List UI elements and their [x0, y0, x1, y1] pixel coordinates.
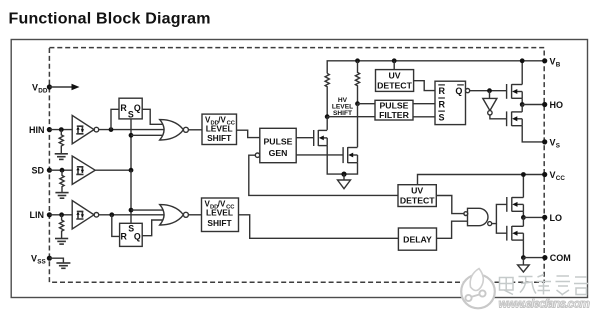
wire Q4 drain to LO	[522, 217, 524, 226]
svg-text:Q: Q	[134, 232, 141, 242]
latch U2 S R Q (low side)	[120, 223, 143, 246]
node SD net to NOR1	[129, 133, 134, 138]
wire VDD arrow	[49, 84, 79, 90]
pin VS	[542, 137, 560, 149]
node VCC/Q3 drain	[521, 172, 526, 177]
wire Q1 source to HO	[521, 98, 523, 104]
wire LO line	[523, 216, 544, 218]
schmitt buffer SD	[72, 156, 95, 184]
svg-text:LIN: LIN	[30, 210, 45, 220]
svg-text:PULSE: PULSE	[380, 100, 409, 110]
svg-text:LEVEL: LEVEL	[206, 124, 233, 134]
svg-text:Q: Q	[134, 103, 141, 113]
svg-text:S: S	[556, 142, 560, 149]
nand gate G4 low side	[464, 208, 492, 225]
svg-text:DETECT: DETECT	[377, 81, 412, 91]
node R2 to pulse filter	[355, 101, 360, 106]
svg-text:LO: LO	[550, 213, 563, 223]
svg-text:DETECT: DETECT	[400, 196, 435, 206]
wire SD net to NOR2 input	[131, 209, 166, 211]
transistor Q4 low side sink	[507, 226, 524, 241]
latch U3 RRS/Q (high side output latch)	[435, 81, 470, 124]
wire latch U1 S input from SD net	[130, 119, 132, 170]
wire level shift to pulse gen	[237, 130, 260, 137]
svg-text:COM: COM	[550, 253, 571, 263]
svg-text:UV: UV	[411, 186, 423, 196]
watermark chinese text	[500, 275, 589, 296]
wire SD net down to low side	[130, 170, 132, 223]
svg-text:SHIFT: SHIFT	[207, 218, 232, 228]
svg-text:UV: UV	[388, 71, 400, 81]
svg-text:SS: SS	[37, 259, 45, 266]
svg-text:V: V	[550, 170, 556, 180]
label HV LEVEL SHIFT	[332, 97, 353, 117]
node COM	[521, 255, 526, 260]
overbars latch U3	[438, 85, 464, 111]
label level shift low	[205, 200, 236, 229]
wire G4 output to LO drivers	[492, 204, 507, 233]
pin VB	[542, 56, 561, 68]
wire VSS to ground	[49, 258, 63, 263]
svg-text:Functional Block Diagram: Functional Block Diagram	[9, 11, 211, 28]
svg-text:SHIFT: SHIFT	[207, 133, 232, 143]
wire pulse gen out A to M1 gate	[296, 137, 314, 139]
svg-text:GEN: GEN	[269, 148, 288, 158]
wire Q4 source to COM	[522, 240, 524, 258]
pin HIN	[47, 127, 52, 132]
label delay	[403, 234, 432, 244]
watermark elecfans logo	[461, 269, 495, 309]
wire latch U2 Q output to NOR2	[142, 220, 166, 236]
wire G1 output	[188, 129, 202, 131]
label pin LIN	[30, 210, 45, 220]
svg-text:Q: Q	[455, 86, 462, 96]
node VB rail R2	[355, 58, 360, 63]
block UV detect high	[376, 70, 414, 92]
wire pulse filter out A to latch	[413, 103, 435, 105]
wire M2 source down	[344, 163, 358, 174]
ground HV sources (open triangle)	[338, 174, 351, 189]
ground HIN	[55, 154, 68, 160]
wire latch U2 R input	[112, 215, 120, 237]
node LIN resistor tap	[59, 212, 64, 217]
wire M1 source down	[327, 146, 344, 175]
node VB rail to UV detect	[392, 58, 397, 63]
wire pulse filter out B to latch	[413, 116, 435, 118]
ground VSS	[56, 263, 70, 268]
block VDD/VCC level shift (high)	[202, 114, 237, 144]
svg-text:R: R	[120, 103, 127, 113]
resistor HIN pulldown	[59, 130, 63, 154]
wire SD buffer output to SD net	[95, 169, 131, 171]
label UV detect high	[377, 71, 412, 91]
outer border box	[11, 40, 587, 298]
wire level shift low to delay	[239, 215, 399, 239]
wire pulse gen enable from UV (feedback)	[249, 155, 398, 195]
wire pulse gen out B to M2 gate	[296, 154, 343, 156]
transistor M1 HV level shift left	[314, 130, 328, 146]
wire SD net to NOR1 input	[131, 134, 166, 136]
label UV detect low	[400, 186, 435, 206]
wire UV detect low output	[436, 196, 464, 214]
wire Q2 drain to HO	[521, 105, 523, 112]
node M1/M2 source	[341, 172, 346, 177]
label pin VDD	[32, 83, 48, 95]
wire HIN input	[49, 129, 72, 131]
wire VB rail to UV detect top	[393, 61, 395, 70]
wire VB rail	[327, 61, 545, 74]
svg-text:DELAY: DELAY	[403, 234, 432, 244]
node HIN/latch-R junction	[109, 127, 114, 132]
label pin SD	[32, 166, 45, 176]
wire Q3 drain to VCC	[522, 175, 524, 198]
node SD net to NOR2	[129, 208, 134, 213]
wire delay output	[437, 221, 468, 238]
nor gate G2 (low side)	[160, 205, 189, 225]
label pulse gen	[264, 137, 293, 159]
schmitt buffer LIN	[72, 201, 99, 229]
svg-text:www.elecfans.com: www.elecfans.com	[499, 297, 591, 311]
wire COM line	[523, 257, 545, 259]
svg-text:HIN: HIN	[29, 125, 45, 135]
pin SD	[47, 168, 52, 173]
ground SD	[55, 193, 68, 199]
pin VSS	[47, 256, 52, 261]
block pulse filter	[375, 100, 413, 120]
wire R2 node down to M2 drain	[357, 104, 359, 148]
svg-text:V: V	[550, 137, 556, 147]
block delay	[398, 228, 436, 250]
resistor SD pulldown	[60, 170, 64, 192]
node LIN/latch-R junction	[109, 212, 114, 217]
transistor M2 HV level shift right	[343, 147, 357, 163]
label pin HIN	[29, 125, 45, 135]
svg-text:HO: HO	[550, 100, 564, 110]
wire Q1 drain to VB	[521, 61, 523, 85]
inverter G3 high side	[483, 91, 507, 119]
pin VCC	[542, 170, 565, 182]
svg-text:LEVEL: LEVEL	[206, 208, 233, 218]
wire latch U1 Q output to NOR	[142, 109, 166, 124]
svg-text:S: S	[439, 112, 445, 122]
wire G2 output	[188, 214, 202, 216]
transistor Q3 low side source	[507, 197, 524, 212]
node LO	[521, 215, 526, 220]
wire HIN buffer output	[99, 129, 166, 131]
block UV detect low	[398, 185, 436, 207]
wire VCC rail	[418, 175, 545, 185]
block pulse gen	[255, 128, 296, 162]
node VB/Q1 drain	[520, 58, 525, 63]
label latch U3 inputs R R S and output Q	[439, 86, 463, 122]
wire pulse filter input A	[358, 103, 376, 105]
ground LIN	[55, 239, 68, 245]
resistor LIN pulldown	[60, 215, 64, 238]
pin COM	[542, 253, 570, 263]
IC boundary dashed box	[49, 48, 544, 283]
schmitt buffer HIN	[72, 115, 99, 143]
svg-text:R: R	[439, 99, 446, 109]
pin HO	[542, 100, 563, 110]
transistor Q2 high side sink	[507, 111, 523, 126]
wire R1 node down to M1 drain	[326, 117, 328, 130]
pin VDD	[47, 84, 52, 89]
wire LIN buffer output	[99, 214, 166, 216]
block VDD/VCC level shift (low)	[202, 198, 239, 232]
svg-text:FILTER: FILTER	[379, 110, 409, 120]
svg-text:SHIFT: SHIFT	[333, 110, 352, 117]
node SD net junction	[129, 168, 134, 173]
wire HO line	[522, 104, 545, 106]
svg-text:DD: DD	[38, 88, 48, 95]
svg-text:R: R	[439, 86, 446, 96]
watermark url text	[499, 297, 591, 311]
resistor R1 level shift load	[325, 73, 329, 116]
latch U1 R S Q (high side set/reset)	[119, 98, 142, 119]
wire SD input	[49, 169, 72, 171]
node HO	[520, 102, 525, 107]
svg-text:SD: SD	[32, 166, 45, 176]
svg-text:V: V	[32, 83, 38, 93]
wire LIN input	[49, 214, 72, 216]
wire Q3 source to LO	[522, 211, 524, 217]
svg-text:CC: CC	[556, 175, 566, 182]
label level shift high	[205, 116, 236, 144]
pin LO	[542, 213, 562, 223]
wire Q2 source to VS	[522, 126, 545, 142]
wire U3 Q output to HO driver	[470, 90, 507, 92]
resistor R2 level shift load	[355, 61, 359, 104]
wire latch U1 R input	[111, 109, 119, 129]
wire pulse filter input B	[327, 116, 375, 118]
svg-text:V: V	[550, 56, 556, 66]
node HO driver gate	[487, 88, 492, 93]
wire UV detect high output	[414, 81, 435, 91]
node R1 to pulse filter	[325, 114, 330, 119]
transistor Q1 high side source follower	[507, 84, 523, 99]
node SD resistor tap	[60, 168, 65, 173]
node HIN resistor tap	[59, 127, 64, 132]
svg-text:R: R	[121, 232, 128, 242]
ground COM (open triangle)	[518, 258, 530, 272]
pin LIN	[47, 212, 52, 217]
svg-text:B: B	[556, 61, 561, 68]
label pulse filter	[379, 100, 409, 120]
svg-text:PULSE: PULSE	[264, 137, 293, 147]
label pin VSS	[31, 254, 46, 266]
svg-text:V: V	[31, 254, 37, 264]
nor gate G1 (high side)	[160, 120, 189, 140]
